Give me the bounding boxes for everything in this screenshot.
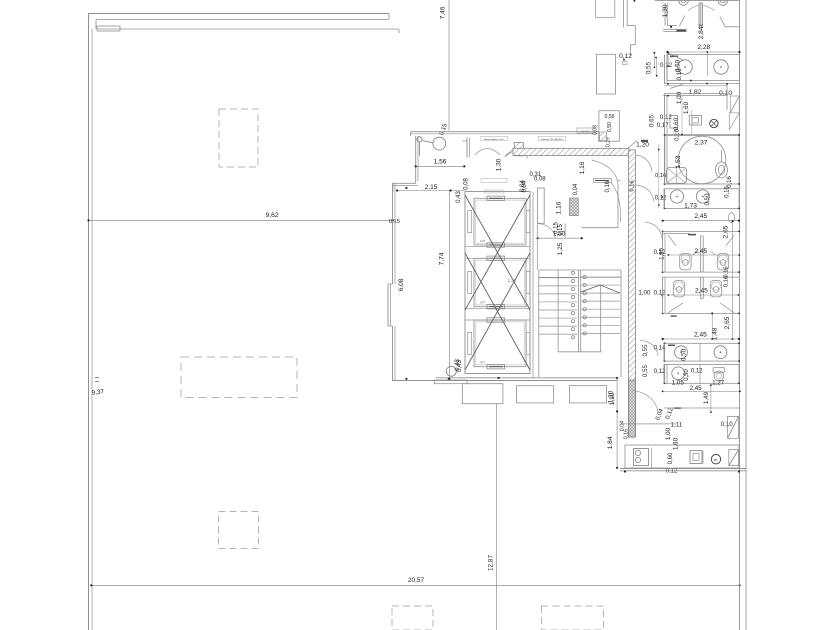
svg-text:0,17: 0,17: [657, 122, 670, 129]
svg-text:0,12: 0,12: [691, 369, 703, 375]
dim 2,28: [668, 51, 740, 53]
svg-text:0,50: 0,50: [607, 122, 613, 132]
black label smudge: [676, 30, 686, 32]
step rect bottom-left of core: [434, 380, 467, 384]
wall bump top-left: [97, 26, 120, 31]
svg-text:1,56: 1,56: [434, 158, 447, 165]
svg-text:9,62: 9,62: [266, 212, 279, 219]
elevator X cross 1: [465, 195, 530, 310]
hatched triangles right: [728, 416, 739, 438]
svg-text:0,16: 0,16: [727, 176, 733, 188]
big door arc: [610, 182, 621, 223]
wall lower top line: [97, 28, 399, 30]
door arcs top: [688, 5, 699, 10]
building edge step near 2,15: [410, 182, 412, 184]
svg-text:Montante Elettrico Tel. Ill.: Montante Elettrico Tel. Ill.: [484, 138, 505, 141]
svg-text:0,55: 0,55: [642, 364, 649, 377]
right wall outer: [745, 0, 747, 630]
sink 1a: [678, 60, 692, 74]
door oval: [729, 213, 735, 223]
door arc room 2: [505, 151, 528, 158]
svg-text:1,53: 1,53: [675, 155, 682, 168]
electrical panel: [690, 451, 702, 464]
wall step down: [398, 29, 400, 33]
label box above elevator: [481, 179, 507, 183]
dimension 12,87 vertical: [496, 404, 498, 630]
montante label box 2: [538, 137, 565, 141]
svg-text:0,12: 0,12: [666, 469, 678, 475]
sink 1b: [714, 60, 728, 74]
svg-text:0,12: 0,12: [619, 53, 632, 60]
svg-text:0,15: 0,15: [389, 219, 400, 225]
svg-text:1P7: 1P7: [480, 239, 486, 243]
svg-text:2,65: 2,65: [723, 225, 730, 238]
dimension 7,74 vertical: [449, 190, 451, 379]
hall arcs: [636, 155, 652, 172]
svg-text:0,50: 0,50: [684, 369, 690, 381]
svg-text:2,45: 2,45: [694, 248, 707, 255]
handrail circles: [571, 271, 574, 274]
bath top room walls: [664, 3, 666, 26]
dashed column lower: [219, 512, 259, 549]
wc pair room B: [673, 281, 684, 297]
partition with diag shapes right: [726, 84, 728, 111]
hatched pier: [514, 143, 523, 156]
toilet top 1: [679, 0, 689, 5]
svg-text:0,12: 0,12: [654, 289, 667, 296]
svg-text:0,16: 0,16: [624, 429, 630, 439]
svg-text:0,43: 0,43: [456, 191, 462, 203]
svg-text:2,84: 2,84: [698, 26, 705, 39]
wall outer left: [88, 14, 90, 630]
small room mid-left: [599, 111, 619, 142]
elevator car 2: [474, 258, 526, 306]
svg-text:7,46: 7,46: [440, 6, 447, 19]
dim 2,45 c: [663, 338, 739, 340]
svg-text:2P7: 2P7: [480, 301, 486, 305]
small arcs lower: [537, 223, 555, 237]
dim 2,45 a: [663, 220, 739, 222]
tiny label box left of small room: [577, 128, 593, 133]
core bottom wall: [393, 380, 618, 382]
stairs treads left flight: [539, 277, 577, 279]
core top wall: [411, 131, 599, 133]
svg-text:1,25: 1,25: [557, 242, 564, 255]
tick box: [623, 62, 628, 65]
hall small labels left of bath: [653, 52, 655, 54]
svg-text:0,50: 0,50: [704, 193, 711, 206]
svg-text:1,27: 1,27: [712, 380, 725, 387]
dim line room B: [668, 294, 738, 296]
right wall inner: [739, 0, 741, 630]
door diag left: [679, 16, 684, 27]
riser shaft box: [570, 198, 579, 216]
svg-text:6,08: 6,08: [398, 278, 405, 291]
svg-text:1,10: 1,10: [609, 392, 616, 405]
svg-text:2,45: 2,45: [694, 213, 707, 220]
bath block bottom wall: [620, 468, 746, 470]
dashed column bottom 1: [392, 606, 433, 630]
svg-text:0,60: 0,60: [668, 452, 674, 464]
wc room back-to-back: [663, 230, 741, 232]
corridor wall: [532, 192, 534, 378]
svg-text:0,56: 0,56: [604, 114, 614, 120]
svg-text:1,00: 1,00: [665, 427, 672, 440]
stairs center divider: [577, 270, 579, 352]
door symbol top-left of core: [417, 137, 422, 142]
partition room A: [700, 236, 703, 272]
svg-text:7,74: 7,74: [439, 252, 446, 265]
hatched wall horizontal: [513, 148, 629, 155]
montante label box 1: [481, 137, 508, 141]
wall y95.5: [664, 95, 727, 97]
dimension 9,62: [89, 219, 394, 221]
svg-text:1,05: 1,05: [672, 380, 685, 387]
svg-text:0,04: 0,04: [522, 180, 528, 192]
dimension dots bath: [690, 80, 692, 82]
svg-text:0,10: 0,10: [721, 421, 734, 428]
door arc room 1: [475, 149, 500, 156]
three rects below core: [462, 384, 503, 404]
svg-text:12,87: 12,87: [488, 555, 495, 571]
figure circle b: [711, 455, 720, 464]
svg-text:1,30: 1,30: [662, 4, 669, 17]
stairs break line: [581, 285, 620, 293]
stairwell inner outline: [557, 270, 559, 352]
duct rect 1: [596, 0, 615, 17]
svg-text:1,16: 1,16: [556, 201, 563, 214]
wc pair room A: [680, 254, 691, 270]
sink room 2 (1,73): [664, 189, 739, 209]
triangle utility: [729, 450, 739, 466]
disabled wc room: [665, 136, 739, 185]
hatched wall vertical: [629, 150, 636, 437]
svg-text:2,65: 2,65: [724, 316, 731, 329]
utility room: [625, 445, 739, 468]
elevator X cross 2: [465, 253, 530, 370]
svg-text:0,04: 0,04: [573, 183, 579, 195]
room label smudges: [670, 56, 678, 58]
wc disabled: [716, 162, 728, 178]
door leaf corridor: [628, 141, 637, 149]
elevator separator 1: [465, 246, 530, 248]
svg-text:1,11: 1,11: [671, 421, 683, 428]
cabinet: [689, 116, 701, 126]
crosshatched wall lower: [629, 380, 636, 437]
room partition right: [564, 223, 566, 237]
svg-text:2,28: 2,28: [697, 44, 710, 51]
svg-text:0,65: 0,65: [649, 114, 656, 127]
svg-text:2,45: 2,45: [694, 332, 707, 339]
sink room 3: [664, 343, 739, 361]
svg-text:1,49: 1,49: [703, 391, 710, 404]
wall jog: [95, 20, 97, 30]
left partial fixture: [670, 116, 678, 129]
svg-text:0,08: 0,08: [464, 178, 470, 190]
crosshatched strip: [527, 149, 540, 154]
outline step vertical: [622, 0, 624, 28]
washer boxes: [634, 449, 649, 466]
sink disabled: [667, 167, 687, 183]
svg-text:1,82: 1,82: [688, 89, 701, 96]
wall 1,11: [621, 423, 676, 425]
svg-text:0,12: 0,12: [660, 62, 673, 69]
svg-text:1,20: 1,20: [636, 142, 649, 149]
room B bottom wall: [663, 312, 741, 314]
svg-text:1,60: 1,60: [672, 437, 679, 450]
svg-text:0,16: 0,16: [724, 276, 730, 287]
svg-text:2,45: 2,45: [695, 287, 708, 294]
door circle bottom: [446, 366, 456, 376]
svg-text:a+: a+: [714, 458, 718, 462]
svg-text:0,12: 0,12: [660, 114, 673, 121]
dim extension lines: [681, 96, 683, 134]
svg-text:20,57: 20,57: [408, 577, 424, 584]
partition room B: [700, 277, 703, 299]
svg-text:0,50: 0,50: [681, 348, 688, 361]
dimension 2,15: [397, 190, 464, 192]
svg-text:1,00: 1,00: [638, 289, 651, 296]
wall inner top: [96, 19, 389, 21]
svg-text:Montante CDZ T.BACK-IN: Montante CDZ T.BACK-IN: [542, 138, 564, 141]
wall outer top: [89, 13, 390, 15]
sink room 4: [664, 364, 739, 383]
elevator car 1: [474, 198, 526, 245]
dim 1,50: [538, 237, 582, 239]
svg-text:1,73: 1,73: [684, 203, 697, 210]
left wall tick 2: [95, 381, 99, 383]
svg-text:1,84: 1,84: [607, 436, 614, 449]
pillar right of elevator: [538, 188, 545, 223]
svg-text:1,35: 1,35: [507, 278, 516, 283]
svg-text:1,16: 1,16: [579, 161, 586, 174]
dashed column top: [219, 109, 258, 167]
wall between A and B: [663, 271, 741, 273]
svg-text:0,55: 0,55: [646, 61, 653, 74]
wall top right join: [388, 14, 390, 20]
utility partitions: [651, 448, 653, 468]
svg-text:0,08: 0,08: [593, 125, 599, 135]
left wall tick 1: [95, 377, 99, 379]
svg-text:0,12: 0,12: [655, 195, 668, 202]
svg-text:1,60: 1,60: [683, 101, 690, 114]
svg-text:0,16: 0,16: [630, 180, 636, 191]
svg-text:1,30: 1,30: [496, 158, 503, 171]
door leaf diagonal: [505, 150, 513, 157]
svg-text:0,55: 0,55: [642, 344, 649, 357]
left wall of bath block: [664, 55, 666, 84]
turning circle: [678, 136, 726, 184]
svg-text:0,08: 0,08: [534, 177, 546, 183]
svg-text:Tub.CDZ: Tub.CDZ: [581, 131, 590, 133]
dashed column bottom 2: [542, 606, 604, 630]
sink room 1: [667, 55, 740, 81]
svg-text:3P7: 3P7: [480, 361, 486, 365]
partition middle with hatch: [699, 3, 703, 26]
elevator separator 2: [465, 307, 530, 309]
door diag right: [720, 17, 725, 27]
figure circle a+: [710, 119, 718, 127]
svg-text:2,37: 2,37: [695, 140, 708, 147]
door diagonals room A: [668, 235, 676, 246]
core top-left step: [415, 136, 417, 183]
door leaf rect: [594, 179, 612, 183]
wall inner left: [91, 29, 93, 630]
dimension 7,46 vertical: [448, 0, 450, 131]
dimension 1,56: [416, 165, 465, 167]
core left wall: [392, 183, 394, 284]
svg-text:0,10: 0,10: [676, 68, 683, 81]
svg-text:2,15: 2,15: [425, 184, 438, 191]
duct rect 2: [597, 54, 616, 94]
svg-text:0,43: 0,43: [455, 359, 461, 371]
dashed slab middle: [181, 357, 297, 398]
dimension 20,57: [91, 584, 739, 586]
toilet top 2: [718, 0, 728, 5]
wall above 1,11: [664, 407, 740, 409]
partition wall small room: [466, 138, 468, 158]
elevator car 3: [474, 320, 526, 367]
stairs treads right flight: [581, 276, 620, 278]
elevator shaft outer: [465, 192, 530, 374]
dim line room A: [668, 254, 739, 256]
stairs room outline: [539, 269, 621, 271]
